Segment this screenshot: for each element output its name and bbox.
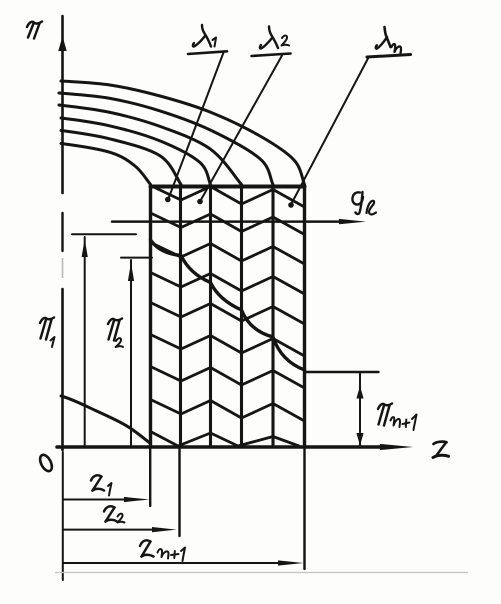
hatch row 7 — [151, 367, 305, 389]
axis label T — [27, 22, 42, 39]
label z1 — [91, 475, 112, 495]
curve 3 — [59, 105, 242, 185]
curve 2 — [59, 93, 273, 185]
lower-left curve — [61, 396, 151, 444]
hatch row 1 — [151, 186, 305, 208]
T1 label — [40, 318, 55, 348]
lambda2 leader — [197, 56, 282, 205]
hatch row 3 — [151, 243, 305, 265]
lambda2 label — [252, 27, 291, 57]
wall left edge r1 (extends to r1 dimension) — [149, 187, 152, 448]
left extension line — [62, 452, 64, 580]
curve 5 — [61, 131, 181, 185]
T1 dimension tick — [72, 233, 136, 235]
wall divider 5 — [271, 187, 274, 448]
origin label 0 — [38, 453, 55, 473]
T2 dimension tick — [121, 257, 152, 259]
hatch row 8 — [151, 400, 305, 422]
hatch row 4 — [151, 273, 305, 295]
temperature profile in wall — [151, 240, 305, 370]
curve 6 (innermost) — [61, 144, 151, 185]
axis label z — [433, 442, 449, 458]
T_n+1 label — [378, 404, 417, 431]
q_l label — [352, 192, 376, 214]
label z2 — [104, 506, 125, 522]
lambda_n label — [367, 27, 411, 57]
hatch row 6 — [151, 335, 305, 357]
label z_n+1 — [140, 540, 185, 561]
T_n+1 dimension tick — [305, 371, 379, 373]
dimension r_n+1 — [63, 560, 304, 565]
wall divider 3 — [209, 187, 212, 448]
wall right edge r_n+1 (extends to dimension) — [303, 187, 306, 448]
lambda1 label — [188, 25, 227, 54]
T2 label — [108, 319, 123, 348]
axis T (vertical) — [58, 16, 66, 450]
wall block top edge — [151, 185, 305, 189]
T1 dimension arrow — [82, 237, 88, 447]
wall divider 4 — [240, 187, 243, 448]
lambda_n leader — [288, 58, 368, 208]
faint scan line — [55, 572, 468, 574]
hatch row 5 — [151, 303, 305, 325]
hatch row 2 — [151, 213, 305, 235]
wall divider r2 (extends to r2 dimension) — [179, 187, 182, 448]
T2 dimension arrow — [128, 260, 134, 447]
lambda1 leader — [165, 53, 224, 203]
curve 4 — [61, 118, 211, 185]
axis r (horizontal) — [57, 444, 413, 450]
T_n+1 dimension arrow — [356, 373, 363, 447]
dimension r2 — [63, 527, 177, 532]
dimension r1 — [63, 497, 150, 502]
curve 1 (outermost temperature curve) — [61, 81, 305, 185]
q_l arrow — [112, 219, 366, 224]
hatch row 9 (at axis) — [151, 432, 300, 447]
